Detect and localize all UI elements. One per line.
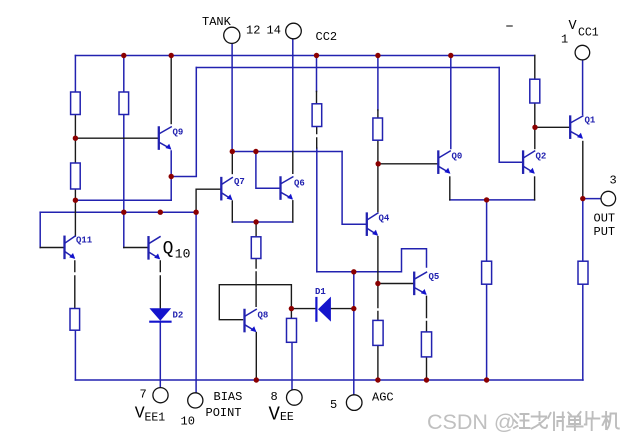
- resistor R8: [530, 79, 540, 103]
- resistor R11: [287, 318, 297, 342]
- wire pin8 leg: [291, 342, 293, 390]
- wire Q0 base rail: [378, 163, 437, 165]
- WIRES_BLUE: [40, 38, 601, 395]
- wire Q7 emitter stub: [231, 201, 233, 222]
- wire Q11 emitter leg: [74, 261, 76, 309]
- transistor Q0: [438, 151, 450, 174]
- resistor R4: [70, 309, 80, 331]
- node Q9 emitter: [169, 174, 174, 179]
- pin 5 circle: [346, 395, 362, 411]
- pin 8 circle: [287, 390, 303, 406]
- transistor Q9: [159, 127, 172, 150]
- svg-text:EE: EE: [280, 411, 294, 424]
- WATERMARK: [427, 410, 619, 434]
- pin 12 circle: [224, 27, 240, 43]
- wire R5 leg: [255, 222, 257, 237]
- transistor Q10: [149, 237, 161, 260]
- node Q11 collector: [73, 198, 78, 203]
- wire Q0 emitter stub: [449, 177, 451, 200]
- transistor Q8: [245, 309, 257, 332]
- transistor Q4: [367, 213, 378, 236]
- transistor Q5: [414, 272, 427, 295]
- wire Q8 emitter stub: [255, 333, 257, 381]
- small gray dash artifact: [507, 25, 512, 27]
- DIODES: [149, 297, 331, 322]
- svg-text:POINT: POINT: [206, 406, 242, 420]
- wire CC2 branch lower: [316, 148, 318, 272]
- wire Q7 base: [196, 189, 221, 212]
- svg-text:Q7: Q7: [234, 177, 245, 187]
- node bias rail: [121, 210, 126, 215]
- wire Q11 base drop: [39, 212, 41, 247]
- svg-text:7: 7: [140, 388, 147, 402]
- svg-text:5: 5: [330, 398, 337, 412]
- svg-text:CC2: CC2: [316, 30, 338, 44]
- wire Q4 emitter leg: [377, 237, 379, 380]
- RESISTORS: [70, 79, 588, 357]
- svg-text:Q11: Q11: [76, 236, 93, 246]
- svg-text:D1: D1: [315, 287, 326, 297]
- diode D2: [149, 308, 171, 320]
- svg-text:Q4: Q4: [379, 214, 390, 224]
- svg-text:Q5: Q5: [429, 272, 440, 282]
- node D1 ends: [289, 306, 294, 311]
- wire Q9 base: [75, 137, 158, 139]
- wire AGC rail y271.8: [317, 249, 427, 272]
- transistor Q2: [523, 151, 535, 174]
- wire bias rail y212: [40, 211, 196, 213]
- wire CC2 branch upper: [316, 56, 318, 92]
- svg-text:10: 10: [175, 247, 191, 262]
- pin 10 circle: [188, 393, 203, 408]
- svg-text:14: 14: [267, 24, 281, 38]
- resistor R12: [373, 320, 383, 345]
- svg-text:3: 3: [610, 174, 617, 188]
- node Q0 base: [376, 161, 381, 166]
- wire Q2 collector stub: [534, 127, 536, 148]
- svg-text:10: 10: [181, 415, 195, 429]
- svg-text:V: V: [569, 19, 578, 34]
- TRANSISTORS: [65, 116, 584, 332]
- wire Q11 base: [40, 247, 64, 249]
- transistor Q1: [570, 116, 583, 139]
- WIRES_BLACK: [40, 56, 583, 381]
- wire Q6 collector stub: [292, 152, 294, 174]
- svg-text:CSDN @: CSDN @: [427, 410, 516, 434]
- wire x123.8 full: [123, 56, 125, 248]
- wire tail current source: [486, 200, 488, 380]
- svg-text:Q2: Q2: [536, 152, 547, 162]
- svg-text:EE1: EE1: [145, 412, 166, 425]
- resistor R3: [71, 163, 81, 189]
- resistor R5: [251, 237, 261, 259]
- svg-text:TANK: TANK: [202, 15, 232, 29]
- svg-text:Q8: Q8: [258, 311, 269, 321]
- wire top bus VCC2: [75, 55, 534, 57]
- node tail: [484, 197, 489, 202]
- svg-text:OUT: OUT: [594, 212, 616, 226]
- svg-text:AGC: AGC: [372, 391, 394, 405]
- wire Q1 emitter stub: [582, 142, 584, 199]
- svg-text:8: 8: [271, 390, 278, 404]
- svg-text:Q0: Q0: [452, 152, 463, 162]
- svg-text:V: V: [269, 404, 281, 426]
- node top rail junctions: [121, 53, 126, 58]
- wire R8 leg: [534, 56, 536, 128]
- wire R11 stub: [290, 309, 292, 319]
- wire Q4 collector upper: [377, 56, 379, 111]
- wire D2 to pin7: [159, 322, 161, 388]
- wire bottom bus VEE: [75, 379, 583, 381]
- wire Q5 emitter leg: [426, 296, 428, 332]
- wire x75 mid black: [74, 115, 76, 237]
- wire Q9 emitter node: [171, 68, 196, 201]
- wire Q6 base path: [256, 152, 281, 189]
- node Q5 base: [375, 281, 380, 286]
- wire Q2 emitter stub: [534, 177, 536, 200]
- pin 1 circle: [575, 45, 590, 60]
- transistor Q7: [221, 178, 232, 201]
- PINS: [153, 23, 616, 410]
- wire pin5 riser: [353, 272, 355, 396]
- diode D1: [318, 297, 331, 322]
- wire left leg to bus: [74, 330, 76, 380]
- wire y200 Q11 collector to Q9 emitter: [75, 199, 171, 201]
- wire Q1 base: [535, 126, 570, 128]
- wire Q2 base riser: [499, 68, 523, 163]
- svg-text:12: 12: [246, 24, 260, 38]
- svg-text:V: V: [135, 404, 145, 423]
- wire D1 anode link: [291, 308, 315, 310]
- wire pin1 to Q1 collector: [582, 60, 584, 115]
- wire Q0 Q2 emitter join: [450, 199, 535, 201]
- svg-text:BIAS: BIAS: [214, 390, 243, 404]
- node tank rail: [230, 149, 235, 154]
- wire pin12 drop: [231, 43, 233, 152]
- svg-text:Q6: Q6: [294, 179, 305, 189]
- wire Q10 emitter leg to D2: [159, 261, 161, 308]
- wire Q7 collector stub: [231, 152, 233, 174]
- resistor R10: [578, 261, 588, 284]
- resistor R13: [421, 332, 431, 357]
- wire Q7 Q6 emitter join: [232, 221, 292, 223]
- wire pin3 stub: [583, 198, 601, 200]
- resistor R6: [312, 104, 322, 127]
- wire y151 tank rail: [232, 151, 342, 153]
- wire Q5 base: [378, 283, 414, 285]
- node bottom bus junctions: [254, 377, 259, 382]
- pin 7 circle: [153, 388, 168, 403]
- wire Q9 collector stub: [170, 56, 172, 124]
- node emitter join: [253, 219, 258, 224]
- wire Q10 base: [124, 247, 149, 249]
- watermark hanzi: [514, 412, 619, 430]
- svg-text:1: 1: [561, 33, 568, 47]
- wire CC2 resistor stubs: [316, 91, 318, 103]
- resistor R2: [119, 92, 129, 115]
- wire output emitter leg: [582, 199, 584, 380]
- wire second top bus: [196, 67, 499, 69]
- node output: [580, 196, 585, 201]
- pin 14 circle: [286, 23, 302, 39]
- transistor Q6: [281, 177, 294, 200]
- node AGC rail: [351, 269, 356, 274]
- svg-text:Q: Q: [163, 239, 174, 259]
- svg-text:CC1: CC1: [578, 27, 599, 40]
- node Q1 base: [532, 125, 537, 130]
- svg-text:PUT: PUT: [594, 225, 616, 239]
- svg-text:D2: D2: [173, 311, 184, 321]
- resistor R7: [373, 118, 383, 140]
- wire Q4 base path: [342, 152, 367, 225]
- wire pin14 drop: [292, 38, 294, 151]
- transistor Q11: [65, 236, 76, 259]
- node Q9 base: [73, 136, 78, 141]
- wire Q0 collector drop: [450, 56, 452, 149]
- resistor R9: [482, 261, 492, 284]
- wire Q4 collector leg: [377, 110, 379, 212]
- wire Q8 box: [219, 285, 291, 320]
- wire left column x75 upper: [74, 56, 76, 93]
- wire pin10 riser: [195, 212, 197, 393]
- wire Q6 emitter stub: [292, 201, 294, 222]
- svg-text:Q1: Q1: [585, 116, 596, 126]
- resistor R1: [71, 92, 81, 115]
- wire D1 cathode link: [331, 308, 354, 310]
- pin 3 circle: [601, 191, 616, 206]
- svg-text:Q9: Q9: [173, 128, 184, 138]
